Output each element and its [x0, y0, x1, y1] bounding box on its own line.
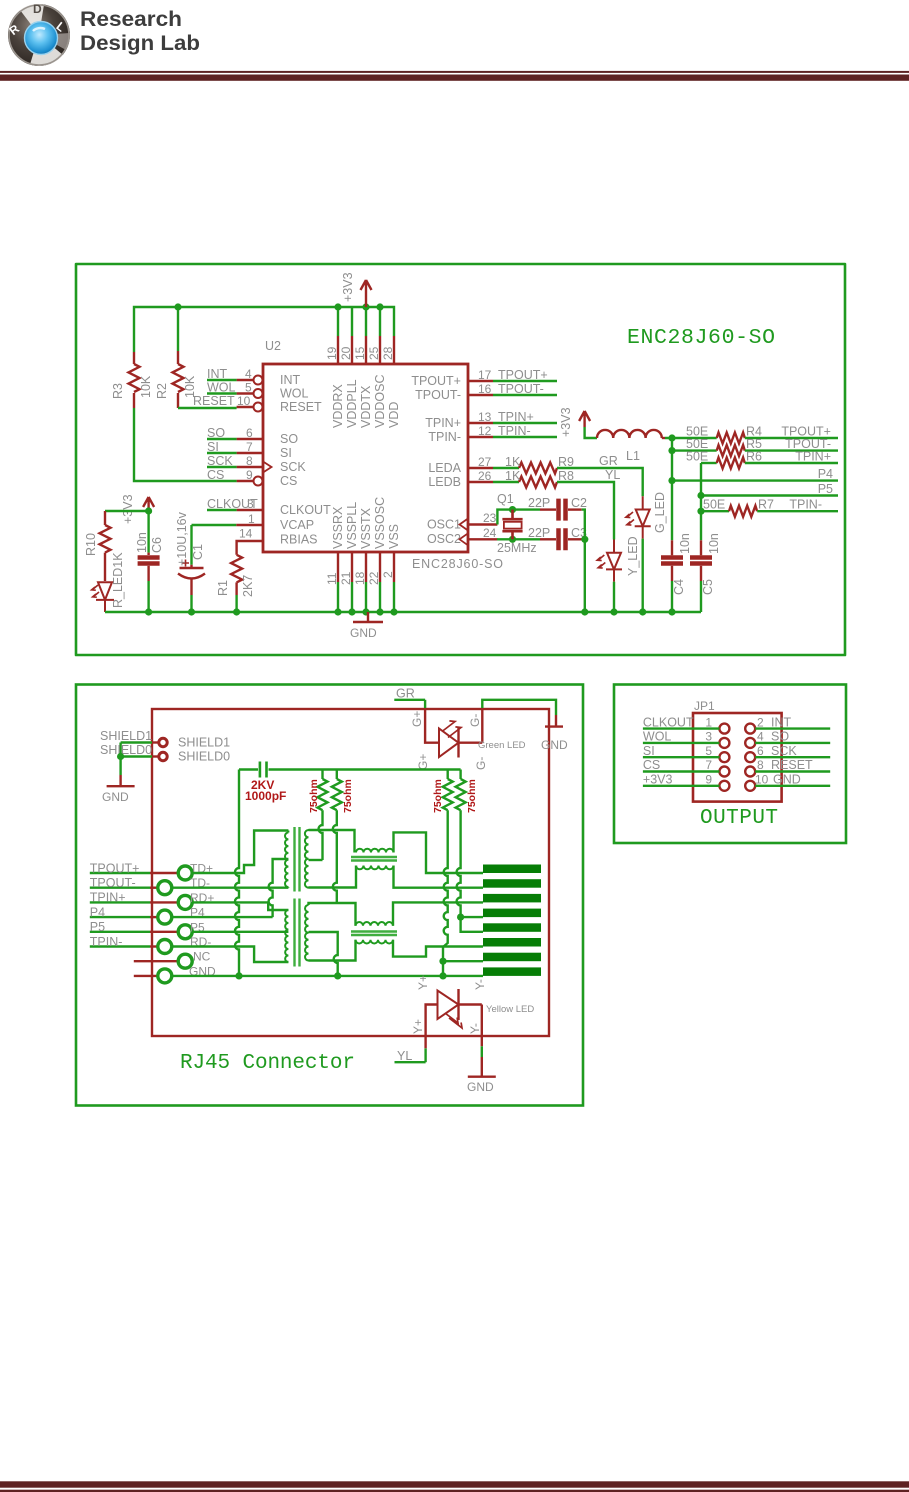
wire TX right bottom to choke A lower	[309, 866, 357, 888]
wire choke A upper right to bar1	[394, 832, 484, 873]
svg-text:7: 7	[246, 440, 253, 454]
resistor 75ohm #1	[308, 770, 328, 861]
svg-text:VDD: VDD	[387, 402, 401, 428]
svg-text:G+: G+	[416, 754, 430, 770]
wire R9 to G_LED (net GR)	[557, 454, 643, 496]
svg-text:SHIELD1: SHIELD1	[178, 736, 230, 750]
wire C2/C3 right to gnd rail	[582, 510, 585, 612]
svg-text:WOL: WOL	[280, 387, 309, 401]
resistor R8 1K	[478, 469, 574, 488]
U2 SCK clock mark	[263, 462, 272, 473]
capacitor C6 10n	[135, 532, 164, 581]
svg-text:Y+: Y+	[416, 975, 430, 990]
svg-text:RJ45 Connector: RJ45 Connector	[180, 1052, 355, 1075]
junction crystal top	[509, 506, 516, 513]
net P5 (RJ45)	[90, 920, 150, 934]
footer rule thin	[0, 1490, 909, 1492]
U2 left pins red stubs	[236, 380, 263, 525]
capacitor C4 10n	[661, 533, 692, 595]
svg-text:L1: L1	[626, 449, 640, 463]
svg-text:SHIELD0: SHIELD0	[178, 750, 230, 764]
transformer RX left winding	[285, 910, 288, 962]
wire choke B upper right to bar3	[393, 902, 483, 925]
svg-text:JP1: JP1	[694, 699, 715, 713]
LED Y_LED	[597, 536, 640, 581]
pin GND (RJ45)	[134, 964, 216, 983]
net GR stub	[394, 687, 425, 701]
net CS (JP1 pin7)	[643, 758, 720, 772]
resistor 75ohm #3	[432, 770, 453, 976]
LED of R10 branch	[92, 582, 114, 612]
svg-text:WOL: WOL	[207, 381, 236, 395]
choke B core	[351, 932, 397, 936]
svg-text:SCK: SCK	[207, 454, 233, 468]
svg-text:TPOUT-: TPOUT-	[415, 388, 461, 402]
svg-text:9: 9	[705, 773, 712, 787]
junction 75ohm#3 / bar7 row	[439, 958, 446, 965]
power +3V3 symbol near C6	[121, 494, 154, 524]
net RESET (JP1 pin8)	[755, 758, 830, 772]
svg-text:23: 23	[483, 511, 497, 525]
svg-text:27: 27	[478, 455, 492, 469]
svg-text:TPOUT+: TPOUT+	[498, 368, 548, 382]
choke B upper winding	[356, 922, 394, 926]
svg-text:G-: G-	[468, 714, 482, 727]
svg-text:6: 6	[246, 426, 253, 440]
svg-text:1000pF: 1000pF	[245, 789, 286, 803]
transformer TX core	[295, 827, 300, 892]
svg-text:ENC28J60-SO: ENC28J60-SO	[412, 557, 503, 571]
resistor R2 10K	[155, 351, 197, 408]
junction crystal bottom	[509, 536, 516, 543]
svg-text:+10U,16v: +10U,16v	[175, 511, 189, 566]
ground symbol GND (yellow LED)	[467, 1057, 496, 1094]
svg-text:GND: GND	[350, 626, 377, 640]
transformer TX right winding	[305, 830, 309, 888]
U2 top power pins (red stubs)	[338, 336, 394, 364]
net SO	[207, 426, 253, 440]
junction +3V3/C6	[145, 507, 152, 514]
wire R10 LED to gnd rail + ground rail	[105, 611, 701, 613]
wire RX right CT to gnd row	[309, 932, 338, 976]
U2 bottom pin name labels (vertical)	[331, 497, 401, 549]
pin SHIELD0	[152, 750, 230, 764]
inductor L1	[597, 430, 665, 463]
svg-text:VDDRX: VDDRX	[331, 384, 345, 428]
svg-text:YL: YL	[605, 468, 620, 482]
svg-text:C2: C2	[571, 496, 587, 510]
svg-text:G-: G-	[474, 757, 488, 770]
LED Green LED	[410, 708, 526, 770]
resistor R6 50E	[686, 450, 762, 469]
svg-text:SI: SI	[207, 440, 219, 454]
net WOL (JP1 pin3)	[643, 730, 720, 744]
svg-text:G_LED: G_LED	[653, 492, 667, 533]
net TPOUT- right	[745, 437, 838, 451]
net SO (JP1 pin4)	[755, 730, 830, 744]
svg-text:TPIN+: TPIN+	[425, 416, 461, 430]
svg-text:10n: 10n	[135, 532, 149, 553]
svg-text:CS: CS	[280, 474, 297, 488]
net SI	[207, 440, 253, 454]
svg-text:VCAP: VCAP	[280, 518, 314, 532]
wire GND row (to bar8)	[172, 975, 483, 977]
net TPIN- right	[757, 498, 838, 512]
wire TD- to TX winding bottom	[172, 887, 289, 889]
svg-text:8: 8	[246, 454, 253, 468]
connector JP1 body	[693, 699, 782, 802]
wire +3V3 to R10/C6	[105, 511, 149, 553]
wire RX right bottom to choke B lower	[309, 940, 356, 961]
svg-text:24: 24	[483, 526, 497, 540]
svg-text:VSSPLL: VSSPLL	[345, 502, 359, 549]
net RESET	[193, 394, 251, 408]
svg-text:RESET: RESET	[280, 400, 322, 414]
resistor R4 50E	[672, 425, 762, 444]
svg-text:SCK: SCK	[280, 460, 306, 474]
choke A core	[351, 857, 397, 861]
svg-text:+3V3: +3V3	[341, 272, 355, 302]
svg-text:1K: 1K	[505, 455, 521, 469]
junction rail/pin25	[376, 303, 383, 310]
net SI (JP1 pin5)	[643, 744, 720, 758]
svg-text:Yellow LED: Yellow LED	[486, 1004, 534, 1015]
resistor R10 R_LED1K	[84, 511, 125, 608]
U2 inversion bubbles INT WOL RESET CS	[254, 376, 263, 486]
svg-text:R2: R2	[155, 383, 169, 399]
svg-text:10n: 10n	[678, 533, 692, 554]
svg-text:TPIN+: TPIN+	[498, 410, 534, 424]
svg-text:TPIN-: TPIN-	[90, 935, 123, 949]
net GND (JP1 pin10)	[755, 773, 830, 787]
RJ45 component outline	[152, 709, 549, 1036]
wire R3 to CS row	[134, 408, 237, 481]
net P5	[701, 482, 838, 496]
capacitor C1 10U,16v electrolytic	[175, 511, 205, 595]
svg-text:R10: R10	[84, 533, 98, 556]
junction railB/R7	[697, 508, 704, 515]
svg-text:14: 14	[239, 527, 253, 541]
svg-text:75ohm: 75ohm	[342, 779, 354, 813]
svg-text:U2: U2	[265, 339, 281, 353]
svg-text:C5: C5	[701, 579, 715, 595]
svg-text:VSS: VSS	[387, 524, 401, 549]
svg-text:CS: CS	[207, 468, 224, 482]
wire YL to Yellow LED	[424, 1048, 426, 1062]
svg-text:TPOUT+: TPOUT+	[411, 374, 461, 388]
svg-text:6: 6	[757, 744, 764, 758]
svg-text:P4: P4	[90, 905, 105, 919]
svg-text:G+: G+	[410, 711, 424, 727]
svg-text:22P: 22P	[528, 496, 550, 510]
net TPOUT- (pin16)	[478, 382, 557, 396]
svg-text:GND: GND	[102, 790, 129, 804]
capacitor C5 10n	[690, 533, 721, 595]
svg-text:CS: CS	[643, 758, 660, 772]
logo text Research Design Lab	[80, 8, 200, 55]
svg-text:3: 3	[247, 497, 254, 511]
svg-text:13: 13	[478, 410, 492, 424]
svg-text:TPIN+: TPIN+	[90, 891, 126, 905]
svg-text:12: 12	[478, 424, 492, 438]
wire TX right CT to 75ohm#1	[309, 859, 323, 861]
svg-text:GND: GND	[541, 738, 568, 752]
wire choke A lower right to bar2	[394, 866, 484, 888]
junction rail/pin19	[334, 303, 341, 310]
resistor R7 50E	[701, 498, 774, 517]
svg-text:SO: SO	[771, 730, 789, 744]
svg-text:R1: R1	[216, 580, 230, 596]
wire R8 to Y_LED (net YL)	[557, 468, 620, 540]
net TPOUT- (RJ45)	[90, 876, 150, 890]
svg-text:5: 5	[245, 381, 252, 395]
junctions gnd rail	[145, 608, 676, 615]
svg-text:R6: R6	[746, 450, 762, 464]
pin P5	[150, 920, 205, 939]
svg-text:INT: INT	[771, 715, 792, 729]
wire OSC1 net	[497, 510, 540, 525]
svg-text:Y+: Y+	[411, 1019, 425, 1034]
choke A lower winding	[356, 866, 394, 870]
svg-text:50E: 50E	[686, 450, 708, 464]
wire R1 to gnd rail	[235, 595, 237, 612]
svg-text:SI: SI	[280, 446, 292, 460]
wire G_LED to gnd rail	[642, 539, 644, 612]
svg-text:TPIN-: TPIN-	[789, 498, 822, 512]
svg-text:5: 5	[705, 744, 712, 758]
svg-text:GR: GR	[599, 454, 618, 468]
resistor R1 2K7	[216, 541, 263, 597]
net TPIN+ (pin13)	[478, 410, 557, 424]
svg-text:VSSRX: VSSRX	[331, 506, 345, 549]
pin P4	[150, 906, 205, 925]
wire RD- to RX winding bottom	[172, 947, 289, 963]
wire RX right top to choke B	[309, 903, 356, 926]
svg-text:C4: C4	[672, 579, 686, 595]
svg-text:17: 17	[478, 368, 492, 382]
svg-text:75ohm: 75ohm	[308, 779, 320, 813]
svg-text:SHIELD1: SHIELD1	[100, 729, 152, 743]
svg-text:RBIAS: RBIAS	[280, 533, 318, 547]
junction rail/R2	[174, 303, 181, 310]
svg-text:INT: INT	[207, 367, 228, 381]
svg-text:P4: P4	[818, 467, 833, 481]
power +3V3 symbol above U2	[341, 272, 372, 307]
svg-text:+3V3: +3V3	[121, 494, 135, 524]
wire LEDA to R9	[493, 467, 519, 469]
wire bar4 row	[461, 916, 483, 918]
junction L1/R4	[668, 434, 675, 441]
svg-text:TPIN+: TPIN+	[795, 450, 831, 464]
net YL stub	[395, 1049, 426, 1063]
power +3V3 symbol at L1	[559, 407, 597, 438]
svg-text:R7: R7	[758, 498, 774, 512]
svg-text:SCK: SCK	[771, 744, 797, 758]
frame RJ45	[76, 685, 583, 1106]
net SHIELD0	[100, 743, 152, 776]
pin TD+	[150, 862, 213, 881]
svg-text:8: 8	[757, 758, 764, 772]
choke A upper winding	[356, 849, 394, 853]
svg-text:OSC2: OSC2	[427, 532, 461, 546]
svg-text:TPIN-: TPIN-	[498, 424, 531, 438]
wire Yellow LED cathode to GND	[481, 1046, 483, 1057]
wire Y_LED to gnd rail	[613, 582, 615, 612]
wire bar7 row	[443, 960, 483, 962]
junction railA/P4	[668, 477, 675, 484]
net P4	[672, 467, 838, 481]
svg-text:+3V3: +3V3	[559, 407, 573, 437]
wire +3V3 top rail	[134, 307, 394, 352]
svg-text:75ohm: 75ohm	[432, 779, 444, 813]
LED G_LED	[626, 492, 667, 539]
net TPIN- (pin12)	[478, 424, 557, 438]
net SCK	[207, 454, 253, 468]
svg-text:GR: GR	[396, 687, 415, 701]
svg-text:VDDOSC: VDDOSC	[373, 375, 387, 428]
svg-text:4: 4	[245, 367, 252, 381]
pin RD+	[150, 891, 214, 910]
wire TX center tap to P4 column	[269, 859, 289, 917]
net +3V3 (JP1 pin9)	[643, 773, 720, 787]
wire choke B lower right to bar6	[393, 940, 483, 957]
svg-text:50E: 50E	[703, 498, 725, 512]
U2 right pins red stubs	[468, 381, 497, 539]
svg-text:Y_LED: Y_LED	[626, 536, 640, 576]
wire P5 to RX center tap	[192, 931, 288, 933]
pin RD-	[150, 935, 211, 954]
U2 right pin name labels	[411, 374, 461, 546]
svg-text:VDDTX: VDDTX	[359, 385, 373, 428]
wire P4 row	[172, 916, 273, 918]
crystal Q1 25MHz	[483, 492, 537, 555]
frame top schematic	[76, 264, 845, 655]
wire TX right top to choke A	[309, 830, 355, 853]
resistor 75ohm #2	[332, 770, 354, 904]
svg-text:4: 4	[757, 730, 764, 744]
junction railB/P5	[697, 492, 704, 499]
transformer RX right winding	[305, 905, 308, 961]
resistor 75ohm #4	[456, 770, 483, 932]
capacitor C2 22P	[528, 496, 587, 521]
net INT (JP1 pin2)	[755, 715, 830, 729]
svg-text:RESET: RESET	[771, 758, 813, 772]
wire Green LED cathode to GND	[482, 700, 556, 715]
svg-text:RESET: RESET	[193, 394, 235, 408]
wire C5 to gnd rail	[700, 581, 702, 612]
junction 75ohm#3 / gnd row	[439, 972, 446, 979]
junction C3/gnd branch	[581, 536, 588, 543]
svg-text:OUTPUT: OUTPUT	[700, 807, 778, 830]
wire C4 to gnd rail	[671, 581, 673, 612]
svg-text:WOL: WOL	[643, 730, 672, 744]
U2 bottom ground pins (red stubs)	[338, 552, 394, 582]
wire LEDB to R8	[493, 481, 519, 483]
svg-text:VSSTX: VSSTX	[359, 507, 373, 549]
svg-text:CLKOUT: CLKOUT	[643, 715, 694, 729]
svg-text:VDDPLL: VDDPLL	[345, 379, 359, 428]
svg-text:YL: YL	[397, 1049, 412, 1063]
svg-text:1: 1	[248, 512, 255, 526]
wire RD+ to RX transformer top	[192, 902, 288, 910]
wire C6 to gnd rail	[147, 581, 149, 612]
ground symbol GND top schematic	[350, 612, 383, 640]
frame OUTPUT	[614, 685, 846, 844]
op IC U2 ENC28J60-SO body	[263, 339, 503, 571]
svg-text:Q1: Q1	[497, 492, 514, 506]
svg-text:SI: SI	[643, 744, 655, 758]
svg-text:VSSOSC: VSSOSC	[373, 497, 387, 549]
svg-text:C6: C6	[150, 537, 164, 553]
wire 2KV bus	[239, 768, 461, 770]
net CLKOUT (JP1 pin1)	[643, 715, 720, 729]
svg-text:7: 7	[705, 758, 712, 772]
net SHIELD1	[100, 729, 152, 743]
footer rule thick	[0, 1481, 909, 1487]
U2 OSC1 OSC2 clock marks	[460, 519, 469, 546]
U2 top pin name labels (vertical)	[331, 375, 401, 428]
header rule thin	[0, 71, 909, 73]
svg-text:TPIN-: TPIN-	[428, 430, 461, 444]
svg-text:Y-: Y-	[473, 979, 487, 990]
svg-text:TPOUT-: TPOUT-	[498, 382, 544, 396]
svg-text:OSC1: OSC1	[427, 518, 461, 532]
U2 left pin name labels	[280, 373, 331, 547]
svg-text:9: 9	[246, 468, 253, 482]
svg-text:LEDB: LEDB	[428, 475, 461, 489]
svg-text:75ohm: 75ohm	[466, 779, 478, 813]
svg-text:SHIELD0: SHIELD0	[100, 743, 152, 757]
svg-text:R3: R3	[111, 383, 125, 399]
net TPOUT+ (pin17)	[478, 368, 557, 382]
net TPOUT+ right	[745, 425, 838, 439]
svg-text:P5: P5	[818, 482, 833, 496]
capacitor C3 22P	[528, 526, 587, 550]
svg-text:2K7: 2K7	[241, 575, 255, 597]
junction railA/R5	[668, 447, 675, 454]
net TPIN+ (RJ45)	[90, 891, 150, 905]
svg-text:25MHz: 25MHz	[497, 541, 537, 555]
wire VCAP to C1	[192, 525, 237, 565]
svg-text:TPOUT+: TPOUT+	[90, 861, 140, 875]
svg-text:P5: P5	[90, 920, 105, 934]
net TPOUT+ (RJ45)	[90, 861, 150, 875]
svg-text:10K: 10K	[139, 375, 153, 398]
svg-text:D: D	[33, 2, 42, 16]
svg-text:22P: 22P	[528, 526, 550, 540]
svg-text:1K: 1K	[505, 469, 521, 483]
resistor R5 50E	[672, 437, 762, 456]
transformer RX core	[295, 899, 300, 967]
pin SHIELD1	[152, 736, 230, 750]
svg-text:Y-: Y-	[468, 1023, 482, 1034]
net CLKOUT	[207, 497, 258, 541]
svg-text:C1: C1	[191, 544, 205, 560]
svg-text:Research: Research	[80, 8, 182, 31]
svg-text:INT: INT	[280, 373, 301, 387]
net INT	[207, 367, 252, 381]
svg-text:SO: SO	[207, 426, 225, 440]
svg-text:10: 10	[755, 773, 769, 787]
resistor R3 10K	[111, 352, 153, 408]
wires U2 bottom pins to rail	[338, 582, 394, 612]
U2 top pin numbers 19 20 15 25 28	[325, 346, 395, 360]
svg-text:GND: GND	[467, 1080, 494, 1094]
svg-text:CLKOUT: CLKOUT	[280, 503, 331, 517]
ground symbol GND (shield)	[102, 775, 135, 804]
wire rail B	[700, 463, 702, 540]
choke B lower winding	[356, 940, 394, 944]
